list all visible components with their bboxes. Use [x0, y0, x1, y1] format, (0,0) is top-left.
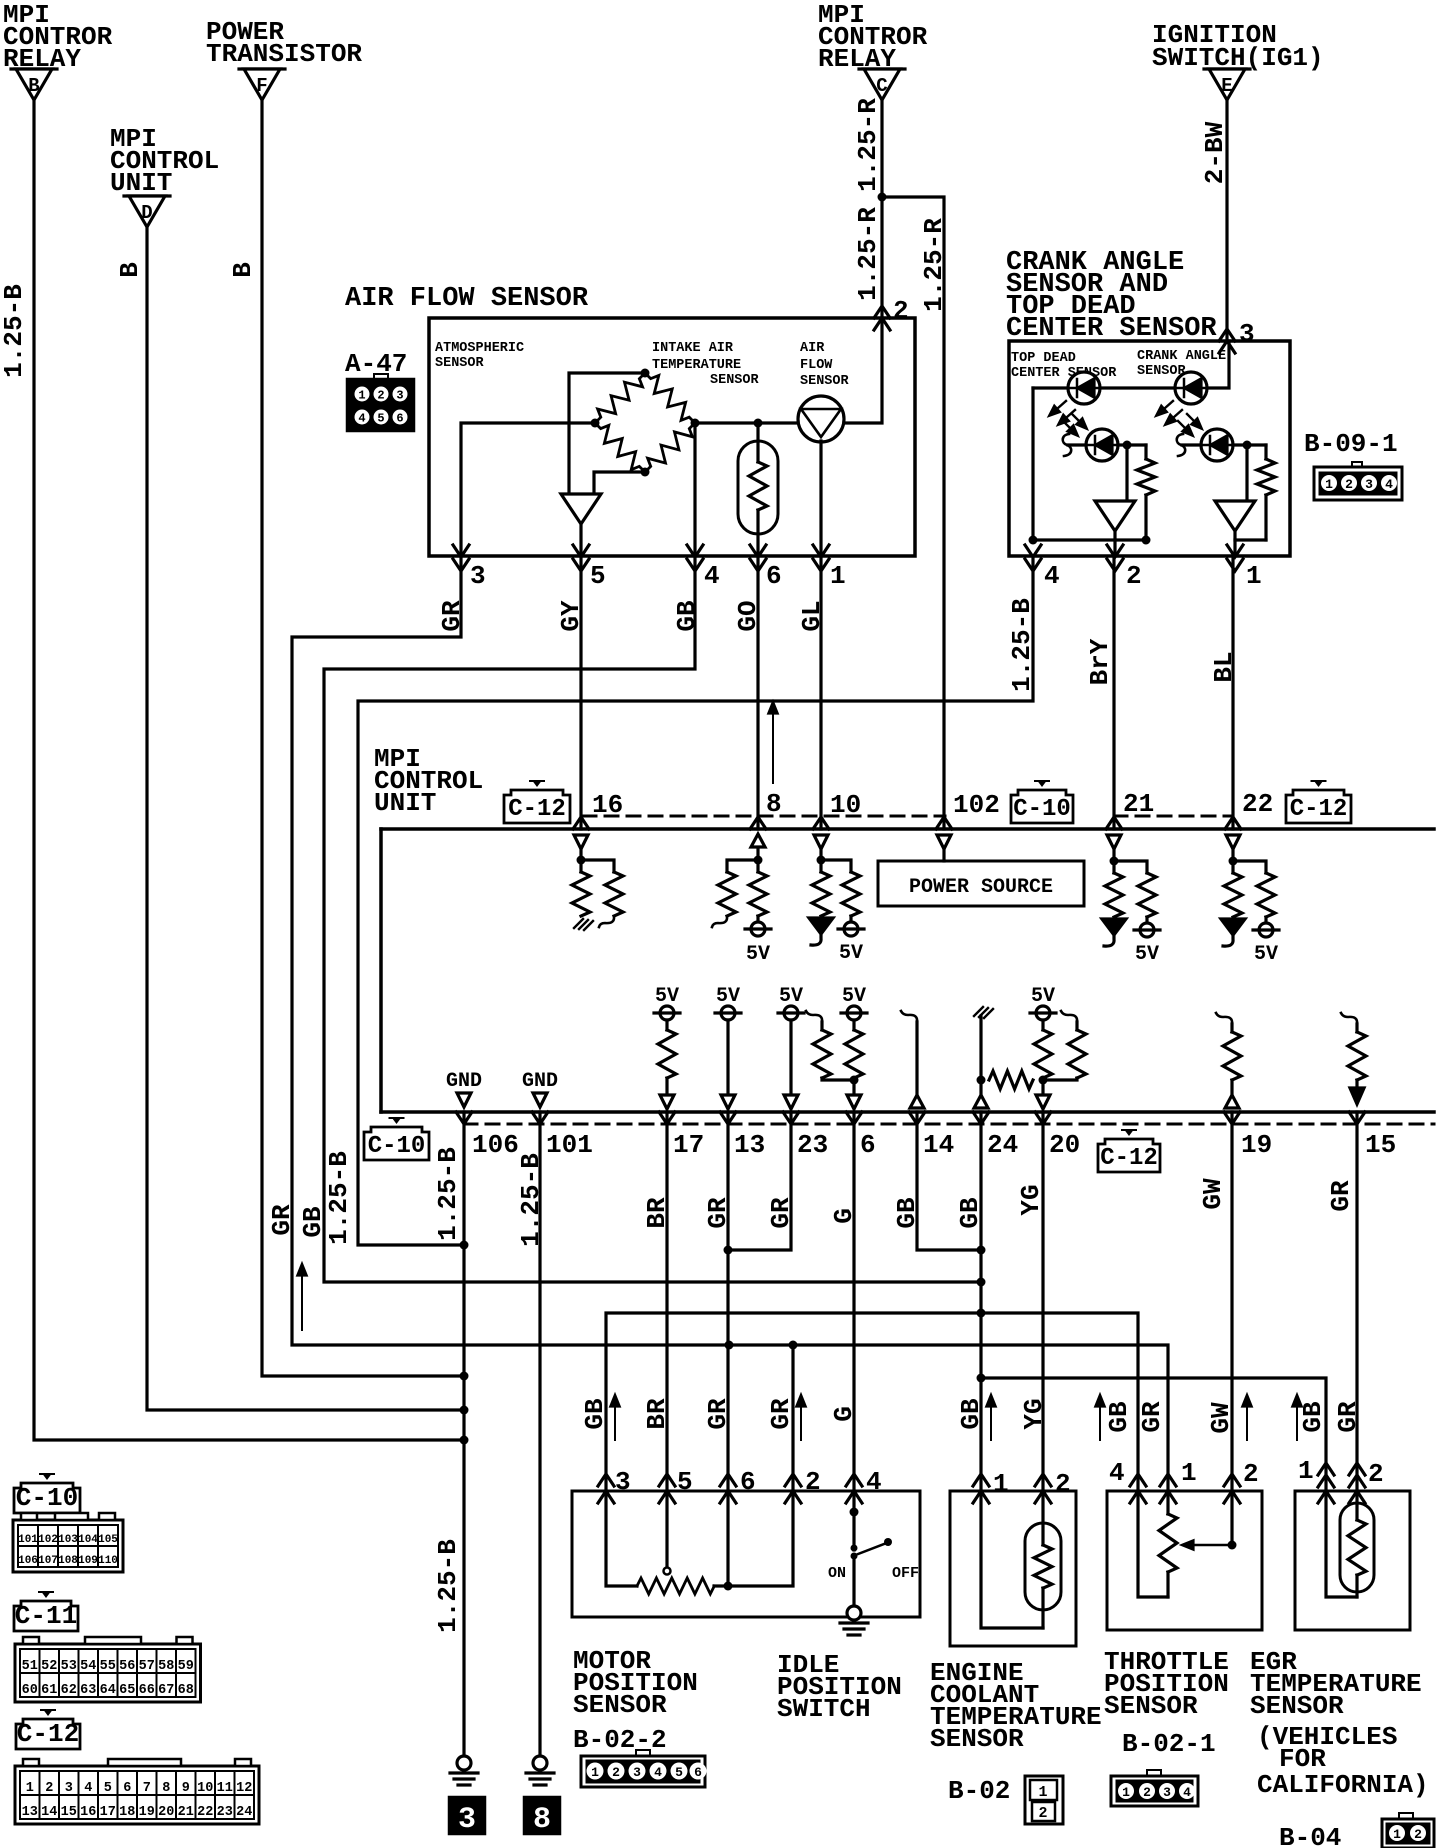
signal arrow [1246, 1399, 1248, 1440]
pin 10 [813, 817, 829, 829]
connector chart C-12 [15, 1766, 259, 1824]
svg-text:2-BW: 2-BW [1200, 121, 1230, 184]
pin102 to power source [942, 848, 945, 861]
svg-text:D: D [141, 202, 152, 224]
svg-text:4: 4 [358, 412, 365, 426]
svg-text:10: 10 [197, 1781, 213, 1796]
svg-text:5: 5 [377, 412, 384, 426]
junction ground net (crank 1.25-B) [460, 1241, 469, 1250]
svg-text:SENSOR: SENSOR [930, 1724, 1024, 1754]
pin 4 of A-47 [687, 545, 703, 557]
svg-text:SENSOR: SENSOR [1104, 1691, 1198, 1721]
svg-text:GB: GB [580, 1398, 610, 1430]
svg-text:POWER SOURCE: POWER SOURCE [909, 876, 1053, 899]
connector label C-12 [1286, 790, 1351, 823]
connector label C-12 [16, 1719, 80, 1749]
EGR temperature sensor box [1295, 1491, 1410, 1630]
svg-text:1: 1 [26, 1781, 34, 1796]
pin8 input network [756, 847, 759, 872]
svg-text:3: 3 [633, 1765, 641, 1780]
sensor pin 4 marker [846, 1474, 862, 1486]
svg-text:UNIT: UNIT [110, 168, 172, 198]
svg-text:1.25-B: 1.25-B [516, 1153, 546, 1247]
svg-text:GND: GND [522, 1070, 558, 1093]
wire pin 2 to air flow sensor [844, 318, 882, 423]
svg-text:14: 14 [923, 1130, 954, 1160]
EGR pin 1 marker [1318, 1463, 1334, 1475]
svg-text:12: 12 [236, 1781, 252, 1796]
svg-text:4: 4 [1183, 1785, 1191, 1800]
pin21 input network [1112, 848, 1115, 873]
svg-text:INTAKE AIR: INTAKE AIR [652, 341, 734, 356]
svg-text:102: 102 [953, 790, 1000, 820]
wire TDC LED cathode down left side [1031, 388, 1034, 540]
svg-text:5V: 5V [746, 943, 770, 966]
junction ground net (power transistor B) [460, 1372, 469, 1381]
junction on wire C [878, 193, 887, 202]
TDC sensor LED [1068, 372, 1100, 404]
svg-text:G: G [829, 1208, 859, 1224]
svg-text:5V: 5V [839, 942, 863, 965]
svg-text:TOP DEAD: TOP DEAD [1011, 351, 1076, 366]
svg-text:1.25-B: 1.25-B [324, 1151, 354, 1245]
pin 23 [783, 1112, 799, 1124]
svg-text:AIR: AIR [800, 341, 825, 356]
svg-text:4: 4 [1044, 561, 1060, 591]
svg-text:C: C [876, 75, 887, 97]
wire bridge bottom node to amplifier [594, 472, 645, 494]
svg-text:5: 5 [675, 1765, 683, 1780]
svg-text:1: 1 [830, 561, 846, 591]
pin 15 [1349, 1112, 1365, 1124]
pin 3 marker at crank angle sensor [1219, 329, 1235, 341]
svg-text:YG: YG [1019, 1398, 1049, 1429]
svg-text:GB: GB [1298, 1401, 1328, 1433]
wire GB pin 24 to coolant sensor pin 1 [979, 1112, 982, 1491]
sensor pin 3 marker [598, 1474, 614, 1486]
wire GB pin 14 joining pin 24 [917, 1112, 981, 1250]
svg-text:6: 6 [123, 1781, 131, 1796]
EGR pin 2 marker [1349, 1463, 1365, 1475]
svg-text:GR: GR [703, 1197, 733, 1229]
connector triangle F [239, 67, 285, 70]
connector icon B-02-2 (6 pins) [636, 1750, 650, 1756]
wire GR pin 13 to motor position sensor pin 6 [726, 1112, 729, 1491]
crank angle / TDC sensor box [1009, 341, 1290, 556]
svg-text:1.25-R: 1.25-R [853, 207, 883, 301]
svg-text:OFF: OFF [892, 1565, 919, 1582]
svg-text:TEMPERATURE: TEMPERATURE [652, 358, 741, 373]
intake air temperature sensor (thermistor) [756, 423, 759, 462]
svg-text:22: 22 [1242, 789, 1273, 819]
wire node to amplifier [1125, 445, 1128, 501]
svg-text:GB: GB [892, 1197, 922, 1229]
svg-text:103: 103 [58, 1534, 78, 1546]
svg-text:C-11: C-11 [15, 1601, 77, 1631]
return wire [981, 1491, 1043, 1628]
svg-text:UNIT: UNIT [374, 788, 436, 818]
junction GB pins 14/24 [977, 1246, 986, 1255]
throttle pin 4 marker [1130, 1474, 1146, 1486]
svg-text:109: 109 [78, 1555, 98, 1567]
pull-up resistor TDC [1144, 445, 1147, 459]
svg-text:102: 102 [38, 1534, 58, 1546]
pin 3 of A-47 [453, 545, 469, 557]
svg-text:6: 6 [766, 561, 782, 591]
svg-text:6: 6 [694, 1765, 702, 1780]
svg-text:3: 3 [1365, 477, 1373, 492]
svg-text:24: 24 [236, 1805, 252, 1820]
wire GR pin 23 joining pin 13 [728, 1112, 791, 1250]
svg-text:GB: GB [298, 1206, 328, 1238]
wire GR pin 15 to EGR sensor pin 2 [1355, 1112, 1358, 1491]
connector icon A-47 (6 pins) [374, 374, 388, 380]
junction GB EGR branch [977, 1374, 986, 1383]
svg-text:23: 23 [217, 1805, 233, 1820]
svg-text:B: B [228, 262, 258, 278]
pin16 input network [579, 848, 582, 872]
svg-text:GW: GW [1206, 1402, 1236, 1434]
svg-text:55: 55 [100, 1659, 116, 1674]
svg-text:104: 104 [78, 1534, 98, 1546]
pin 20 [1035, 1112, 1051, 1124]
svg-text:8: 8 [533, 1803, 551, 1837]
svg-text:16: 16 [592, 790, 623, 820]
svg-text:2: 2 [1143, 1785, 1151, 1800]
svg-text:67: 67 [158, 1683, 174, 1698]
svg-text:58: 58 [158, 1659, 174, 1674]
body ground number 3 [449, 1797, 485, 1834]
wire D (B) [147, 227, 464, 1410]
svg-text:3: 3 [65, 1781, 73, 1796]
svg-text:57: 57 [139, 1659, 155, 1674]
pin 6 of A-47 [750, 545, 766, 557]
junction at intake air temp sensor [754, 419, 763, 428]
pin 1 of A-47 [813, 545, 829, 557]
svg-text:C-10: C-10 [368, 1133, 426, 1160]
wire GL pin1 to MPI pin 10 [819, 556, 822, 829]
wire 1.25-B pin 106 to body ground 3 [462, 1112, 465, 1756]
pin 2 of B-09-1 [1107, 545, 1123, 557]
throttle pot resistor [1166, 1491, 1169, 1514]
svg-text:18: 18 [119, 1805, 135, 1820]
svg-text:17: 17 [673, 1130, 704, 1160]
pin10 input network [819, 848, 822, 872]
svg-text:B-04: B-04 [1279, 1823, 1341, 1848]
svg-text:CENTER SENSOR: CENTER SENSOR [1011, 366, 1117, 381]
wire BL crank pin 1 to MPI pin 22 [1231, 556, 1234, 829]
pin 22 [1225, 817, 1241, 829]
svg-text:C-12: C-12 [1100, 1145, 1158, 1172]
svg-text:G: G [829, 1406, 859, 1422]
TDC photodiode [1063, 434, 1071, 456]
svg-text:13: 13 [734, 1130, 765, 1160]
svg-text:3: 3 [470, 561, 486, 591]
junction rail left [1029, 536, 1038, 545]
bridge node left [591, 419, 600, 428]
svg-text:C-12: C-12 [508, 796, 566, 823]
POWER SOURCE block [878, 861, 1084, 906]
wire photodiode to amp node [1118, 443, 1146, 446]
svg-text:56: 56 [119, 1659, 135, 1674]
pin 1 return [1326, 1491, 1357, 1597]
wire G pin 6 to idle position switch pin 4 [852, 1112, 855, 1491]
svg-text:7: 7 [143, 1781, 151, 1796]
svg-text:2: 2 [1368, 1459, 1384, 1489]
svg-text:FLOW: FLOW [800, 358, 833, 373]
pot wiper from pin 5 [665, 1491, 668, 1567]
wire LED supply row [1033, 341, 1229, 388]
svg-text:19: 19 [1241, 1130, 1272, 1160]
pin 24 [973, 1112, 989, 1124]
junction GR branch [789, 1341, 798, 1350]
pin 17 [659, 1112, 675, 1124]
svg-text:65: 65 [119, 1683, 135, 1698]
svg-text:4: 4 [84, 1781, 92, 1796]
pin 102 [936, 817, 952, 829]
svg-text:2: 2 [1345, 477, 1353, 492]
svg-text:CRANK ANGLE: CRANK ANGLE [1137, 349, 1226, 364]
svg-text:1: 1 [1393, 1827, 1401, 1842]
svg-text:2: 2 [1126, 561, 1142, 591]
pin 101 [532, 1112, 548, 1124]
pin 5 of A-47 [573, 545, 589, 557]
throttle position sensor box [1107, 1491, 1262, 1630]
svg-text:GR: GR [703, 1398, 733, 1430]
junction GB sensor net [977, 1309, 986, 1318]
svg-text:1: 1 [1325, 477, 1333, 492]
junction GR net at pin13 wire [725, 1341, 734, 1350]
junction ground net (relay 1.25-B) [460, 1436, 469, 1445]
svg-text:TRANSISTOR: TRANSISTOR [206, 39, 362, 69]
connector icon B-02 (2 pin vertical) [1025, 1776, 1063, 1824]
connector label C-10 [364, 1127, 429, 1160]
svg-text:2: 2 [377, 389, 384, 403]
wire YG pin 20 to coolant sensor pin 2 [1041, 1112, 1044, 1491]
connector label C-12 [504, 790, 570, 823]
signal direction arrow [772, 706, 774, 783]
junction GR pins 13/23 [724, 1246, 733, 1255]
svg-text:51: 51 [22, 1659, 38, 1674]
svg-text:F: F [256, 75, 267, 97]
svg-text:9: 9 [182, 1781, 190, 1796]
svg-text:1.25-B: 1.25-B [433, 1147, 463, 1241]
air flow sensor box [429, 318, 915, 556]
svg-text:3: 3 [1239, 319, 1255, 349]
junction GB from air flow sensor [977, 1278, 986, 1287]
svg-text:GR: GR [1326, 1180, 1356, 1212]
connector triangle C [859, 67, 905, 70]
connector icon B-04 (2 pins) [1399, 1813, 1413, 1819]
wire 1.25-B pin 101 to body ground 8 [538, 1112, 541, 1756]
thermistor element [1041, 1491, 1044, 1545]
svg-text:15: 15 [1365, 1130, 1396, 1160]
svg-text:1.25-B: 1.25-B [433, 1539, 463, 1633]
crank photodiode [1177, 434, 1185, 456]
svg-text:ATMOSPHERIC: ATMOSPHERIC [435, 341, 524, 356]
svg-text:14: 14 [41, 1805, 57, 1820]
amplifier in atmospheric sensor [561, 494, 601, 524]
pin 21 [1106, 817, 1122, 829]
svg-text:5V: 5V [1254, 943, 1278, 966]
svg-text:20: 20 [1049, 1130, 1080, 1160]
svg-text:1: 1 [591, 1765, 599, 1780]
svg-text:1.25-R: 1.25-R [919, 218, 949, 312]
wire TDC amp to pin 2 [1113, 530, 1116, 556]
svg-text:24: 24 [987, 1130, 1018, 1160]
signal arrow [614, 1399, 616, 1440]
svg-text:53: 53 [61, 1659, 77, 1674]
svg-text:1: 1 [1122, 1785, 1130, 1800]
connector dashed line (bottom row) [464, 1123, 1434, 1126]
svg-text:106: 106 [472, 1130, 519, 1160]
junction ground net (MPI unit B) [460, 1406, 469, 1415]
motor position sensor / idle position switch box [572, 1491, 920, 1617]
svg-text:B: B [28, 75, 39, 97]
wire crank amp to pin 1 [1233, 530, 1236, 556]
ground rail inside sensor [1033, 538, 1266, 541]
wire 1.25-R branch to MPI pin 102 [882, 197, 944, 829]
junction pot to pin 6 [724, 1582, 733, 1591]
pin 106 [456, 1112, 472, 1124]
switch lever [858, 1544, 884, 1554]
svg-text:11: 11 [217, 1781, 233, 1796]
TDC amplifier [1095, 501, 1135, 531]
svg-text:110: 110 [98, 1555, 118, 1567]
svg-text:3: 3 [458, 1803, 476, 1837]
svg-text:63: 63 [80, 1683, 96, 1698]
pin19 input [1216, 1013, 1232, 1024]
signal arrow [1099, 1399, 1101, 1440]
svg-text:101: 101 [546, 1130, 593, 1160]
crank amplifier [1215, 501, 1255, 531]
connector dashed line (top row) [583, 815, 1233, 818]
svg-text:GW: GW [1198, 1178, 1228, 1210]
svg-text:5: 5 [104, 1781, 112, 1796]
idle position switch [852, 1491, 855, 1550]
connector triangle B [11, 67, 57, 70]
svg-text:61: 61 [41, 1683, 57, 1698]
atmospheric sensor bridge (4 resistors) [589, 367, 650, 428]
connector chart C-10 [13, 1520, 123, 1572]
svg-text:105: 105 [98, 1534, 118, 1546]
MPI unit top edge [381, 827, 1434, 831]
pin15 input [1341, 1013, 1357, 1024]
svg-text:3: 3 [396, 389, 403, 403]
wire 1.25-B crank pin 4 to ground net [358, 556, 1033, 1245]
wire photodiode to amp node [1233, 443, 1266, 446]
connector label C-10 [1011, 790, 1073, 823]
svg-text:SWITCH: SWITCH [777, 1694, 871, 1724]
svg-text:1.25-B: 1.25-B [0, 284, 29, 378]
svg-text:GB: GB [1104, 1401, 1134, 1433]
wire GR from A-47 pin 3 routed to motor position sensor pin 2 and throttle sensor pin 1 [292, 556, 1168, 1491]
pull-up resistor crank [1264, 445, 1267, 459]
svg-text:GND: GND [446, 1070, 482, 1093]
pin 14 [909, 1112, 925, 1124]
connector triangle E [1204, 67, 1250, 70]
signal direction arrow [301, 1268, 303, 1330]
svg-text:1: 1 [358, 389, 365, 403]
pin 16 [573, 817, 589, 829]
svg-text:23: 23 [797, 1130, 828, 1160]
svg-text:GR: GR [1137, 1401, 1167, 1433]
svg-text:59: 59 [178, 1659, 194, 1674]
svg-text:52: 52 [41, 1659, 57, 1674]
svg-text:16: 16 [80, 1805, 96, 1820]
EGR thermistor [1355, 1491, 1358, 1520]
svg-text:C-10: C-10 [1013, 796, 1071, 823]
junction rail resistor [1142, 536, 1151, 545]
svg-text:SENSOR: SENSOR [800, 374, 850, 389]
connector chart C-11 [15, 1644, 201, 1702]
svg-text:AIR FLOW SENSOR: AIR FLOW SENSOR [345, 284, 589, 314]
MPI unit bottom edge [381, 1110, 1434, 1114]
pin 2 marker at air flow sensor [874, 306, 890, 318]
body ground number 8 [524, 1797, 560, 1834]
svg-text:66: 66 [139, 1683, 155, 1698]
pin 4 of B-09-1 [1025, 545, 1041, 557]
svg-text:4: 4 [1385, 477, 1393, 492]
connector icon B-09-1 (4 pins) [1352, 462, 1362, 467]
bridge node bottom [641, 468, 650, 477]
wire BrY crank pin 2 to MPI pin 21 [1112, 556, 1115, 829]
wire bridge right node to pin 4 [693, 423, 696, 556]
sensor pin 2 marker [785, 1474, 801, 1486]
svg-text:8: 8 [162, 1781, 170, 1796]
wire GW pin 19 to throttle sensor pin 2 [1230, 1112, 1233, 1491]
svg-text:1: 1 [1038, 1784, 1047, 1801]
connector label C-10 [14, 1483, 80, 1513]
svg-text:64: 64 [100, 1683, 116, 1698]
svg-text:GB: GB [956, 1398, 986, 1430]
svg-text:5V: 5V [1135, 943, 1159, 966]
crank angle sensor LED [1175, 372, 1207, 404]
pin14 input [901, 1011, 917, 1022]
svg-text:B-09-1: B-09-1 [1304, 429, 1398, 459]
svg-text:C-12: C-12 [1290, 796, 1348, 823]
connector triangle D [124, 194, 170, 197]
wire GB net: motor sensor pin 3 to throttle sensor pin 4 [606, 1313, 1138, 1491]
wire B (1.25-B) from relay B down left side [34, 100, 464, 1440]
pin 1 of B-09-1 [1227, 545, 1243, 557]
svg-text:SENSOR: SENSOR [1250, 1691, 1344, 1721]
svg-text:GR: GR [766, 1197, 796, 1229]
ground symbol (idle position switch) [847, 1606, 861, 1620]
svg-text:1: 1 [993, 1469, 1009, 1499]
wire E (2-BW) [1225, 100, 1228, 341]
connector label C-11 [14, 1601, 78, 1631]
svg-text:60: 60 [22, 1683, 38, 1698]
svg-text:106: 106 [18, 1555, 38, 1567]
wire GB from A-47 pin 4 to GB net [324, 556, 981, 1282]
junction crank photodiode node [1243, 441, 1252, 450]
svg-text:BrY: BrY [1085, 638, 1115, 685]
svg-text:1.25-R: 1.25-R [853, 98, 883, 192]
svg-text:17: 17 [100, 1805, 116, 1820]
connector icon B-02-1 (4 pins) [1147, 1770, 1161, 1776]
svg-text:2: 2 [612, 1765, 620, 1780]
svg-text:GB: GB [955, 1197, 985, 1229]
wire amp output to pin 5 [579, 524, 582, 556]
svg-text:5: 5 [590, 561, 606, 591]
wire F (B) [262, 100, 464, 1376]
svg-text:B: B [115, 262, 145, 278]
svg-text:1.25-B: 1.25-B [1007, 598, 1037, 692]
svg-text:19: 19 [139, 1805, 155, 1820]
svg-text:E: E [1221, 75, 1232, 97]
svg-text:1: 1 [1246, 561, 1262, 591]
